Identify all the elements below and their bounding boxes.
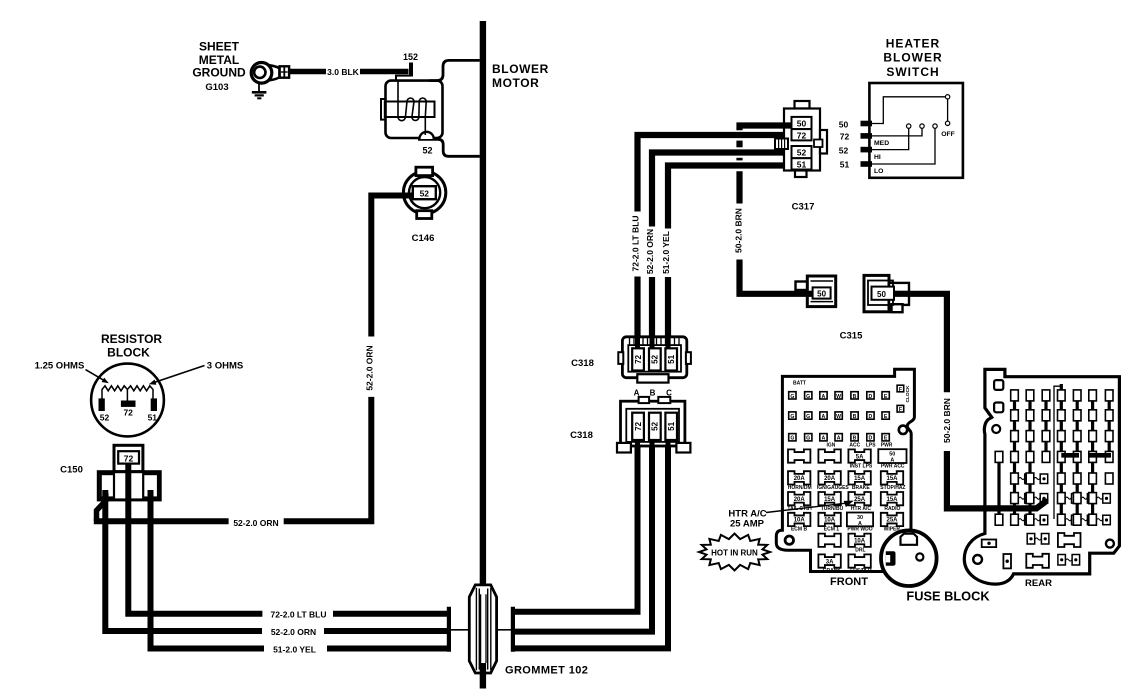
svg-text:15A: 15A: [886, 497, 898, 503]
wire 72-2.0 LT BLU (C317 to C318, upper segment): [638, 135, 792, 212]
fuse cavity E row3 col7: [882, 434, 889, 441]
fuse cavity D row1 col6: [867, 392, 874, 399]
rear fuse terminal row4 col1: [1011, 451, 1019, 462]
rear fuse terminal row3 col1: [1011, 431, 1019, 442]
svg-text:W: W: [836, 414, 841, 420]
fuse 15A TURN/BU: [818, 492, 840, 505]
svg-text:LO: LO: [874, 168, 883, 175]
connector C318 (upper) rib lines: [630, 338, 680, 346]
svg-text:STOP/HAZ: STOP/HAZ: [880, 485, 905, 491]
svg-text:51-2.0 YEL: 51-2.0 YEL: [661, 231, 671, 274]
svg-text:DRL: DRL: [855, 547, 865, 553]
svg-text:51: 51: [148, 412, 158, 422]
harness bundle bar (left of grommet): [447, 607, 451, 652]
rear fuse terminal row2 col3: [1042, 410, 1050, 421]
connector C318 (upper) housing: [622, 337, 686, 378]
label BLOWER MOTOR: [492, 62, 549, 90]
svg-text:BATT: BATT: [793, 380, 806, 386]
rear terminal with dot (vertical): [1003, 554, 1011, 568]
fuse cavity W row2 col4: [835, 412, 842, 419]
rear fuse column 6 bus line: [1091, 392, 1094, 524]
connector C318 (lower) left foot: [617, 443, 631, 453]
rear fuse column 4 bus line: [1060, 384, 1063, 524]
resistor block housing circle: [91, 364, 164, 437]
rear relay contacts pair (bottom row upper): [1027, 534, 1035, 545]
arrow from 1.25 OHMS to resistor: [86, 370, 106, 382]
svg-text:B: B: [853, 394, 857, 400]
label SHEET METAL GROUND: [192, 40, 246, 80]
connector C318 (upper) inner shell: [628, 345, 681, 372]
svg-text:51: 51: [667, 421, 676, 430]
rear fuse terminal row7 col5: [1073, 514, 1081, 525]
svg-text:10A: 10A: [794, 518, 806, 524]
connector C317 pin box 51: [792, 158, 812, 169]
connector C317 top bump: [795, 101, 810, 109]
rear fuse terminal row4 col3: [1042, 451, 1050, 462]
svg-text:25 AMP: 25 AMP: [730, 518, 765, 529]
fuse cavity B row3 col5: [851, 434, 858, 441]
rear fuse column 5 bus line: [1076, 392, 1079, 524]
svg-text:G: G: [790, 394, 794, 400]
switch line pin 51 to LO contact: [872, 129, 935, 165]
svg-text:ECM B: ECM B: [791, 527, 808, 533]
svg-text:50: 50: [797, 119, 807, 129]
svg-text:3A: 3A: [826, 559, 834, 565]
svg-text:B: B: [650, 388, 656, 397]
connector C318 (lower) pin box 51: [665, 413, 677, 440]
connector C318 (lower) housing: [621, 401, 685, 446]
svg-text:72: 72: [797, 130, 807, 140]
svg-text:GROUND: GROUND: [192, 66, 246, 80]
rear fuse terminal row1 col6: [1089, 390, 1097, 401]
rear fuse terminal row1 col3: [1042, 390, 1050, 401]
svg-text:ACC: ACC: [849, 442, 860, 448]
svg-text:52: 52: [420, 189, 430, 199]
blower motor brush dome (pin 52): [419, 132, 433, 139]
wire 72-2.0 LT BLU from C150 centre pin (left segment of run): [128, 463, 262, 614]
connector C318 (upper) pin box 72: [632, 348, 644, 370]
fuse 50A PWR ACC: [878, 449, 906, 463]
arrow from HTR A/C label to 25A fuse: [766, 503, 846, 512]
fuse cavity G row3 col1: [789, 434, 796, 441]
fuse 10A DRL: [848, 534, 870, 547]
svg-text:G: G: [806, 394, 810, 400]
bulkhead line edge marks inside grommet: [480, 594, 482, 663]
switch wiper line from pin 50: [872, 97, 945, 124]
wire 3.0 BLK (right segment): [360, 69, 409, 74]
rear fuse terminal row1 col7: [1105, 390, 1113, 401]
svg-text:20A: 20A: [824, 476, 836, 482]
svg-text:BLOWER: BLOWER: [883, 51, 942, 65]
svg-text:F: F: [899, 407, 902, 413]
svg-text:10A: 10A: [854, 539, 866, 545]
fuse 30A PWR WDO: [847, 513, 873, 527]
svg-text:25A: 25A: [886, 518, 898, 524]
rear block cavity square (lower): [994, 403, 1003, 413]
connector C318 (upper) pin box 51: [665, 348, 677, 370]
svg-text:HEATER: HEATER: [886, 37, 940, 51]
svg-text:E: E: [884, 394, 888, 400]
resistor pin 51: [151, 398, 157, 411]
connector C315 (right half) right tab lower: [889, 295, 909, 305]
rear relay contact row5 col2: [1034, 477, 1040, 479]
fuse 5A INST LPS: [848, 449, 870, 462]
wire link from pin 152 into motor: [396, 76, 411, 81]
svg-text:15A: 15A: [886, 476, 898, 482]
svg-text:SHEET: SHEET: [199, 40, 240, 54]
svg-text:15A: 15A: [824, 497, 836, 503]
svg-text:72: 72: [634, 354, 643, 363]
fuse cavity A row3 col4: [835, 434, 842, 441]
ground symbol G103: [258, 83, 260, 91]
svg-text:REAR: REAR: [1025, 578, 1052, 589]
wire 50-2.0 BRN crossing segment 1: [736, 141, 742, 148]
svg-text:G103: G103: [205, 82, 228, 93]
svg-text:PWR ACC: PWR ACC: [881, 463, 905, 469]
fuse cavity E row1 col7: [882, 392, 889, 399]
rear fuse column 2 bus line: [1028, 392, 1031, 524]
wire 52-2.0 ORN (lower segment joining horizontal run): [284, 397, 372, 521]
fuse block FRONT housing outline: [776, 369, 914, 571]
wire 50-2.0 BRN from C317 pin 50 (corner segment): [740, 126, 792, 131]
svg-text:HOT IN RUN: HOT IN RUN: [711, 548, 758, 557]
svg-text:D: D: [869, 394, 873, 400]
rear fuse terminal row6 col5: [1073, 493, 1081, 504]
rear relay contact row6 col5: [1081, 497, 1087, 499]
rear fuse column 3 bus line: [1044, 392, 1047, 463]
connector C150 left pin cavity: [101, 474, 114, 497]
switch pin stub 50: [861, 121, 873, 127]
svg-text:FUS/PLR: FUS/PLR: [850, 568, 872, 574]
rear fuse terminal row5 col4: [1058, 473, 1066, 484]
resistor pin 52: [99, 398, 105, 411]
rear fuse terminal row2 col4: [1058, 410, 1066, 421]
connector C315 (left half) housing: [807, 276, 835, 307]
wire 50-2.0 BRN out of C315 to fuse block: [892, 294, 947, 392]
rear extra column terminal (row7): [995, 514, 1003, 525]
rear fuse terminal row1 col5: [1073, 390, 1081, 401]
rear relay contact row7 col2: [1034, 519, 1040, 521]
fuse cavity B row2 col5: [851, 412, 858, 419]
svg-text:20A: 20A: [794, 497, 806, 503]
connector C315 (right half) foot: [892, 304, 903, 312]
rear fuse terminal row4 col5: [1073, 451, 1081, 462]
svg-text:3.0 BLK: 3.0 BLK: [327, 67, 360, 77]
svg-text:B: B: [853, 414, 857, 420]
svg-text:PWR WDO: PWR WDO: [847, 527, 872, 533]
connector C318 (upper) left bump: [618, 352, 623, 364]
rear terminal with dot (bottom left): [982, 540, 997, 548]
rear fuse (bottom centre-left): [1026, 554, 1049, 568]
rear fuse terminal row3 col4: [1058, 431, 1066, 442]
arrow from 3 OHMS to resistor: [152, 366, 205, 384]
svg-text:G: G: [790, 436, 794, 442]
rear fuse terminal row2 col2: [1026, 410, 1034, 421]
fuse 10A ECM 1: [818, 513, 840, 526]
wire 52-2.0 ORN elbow from C150 left pin to upper run: [97, 493, 106, 521]
rear fuse terminal row4 col4: [1058, 451, 1066, 462]
mounting hole (rear block bottom left): [973, 555, 982, 564]
svg-text:LPS: LPS: [866, 442, 876, 448]
wire stubs below C318 lower pins: [635, 440, 640, 448]
svg-text:D: D: [869, 414, 873, 420]
connector C150 top housing: [114, 445, 143, 471]
fuse cavity D row2 col6: [867, 412, 874, 419]
svg-text:IGN/GAUGES: IGN/GAUGES: [817, 485, 850, 491]
svg-text:INST LPS: INST LPS: [850, 463, 873, 469]
svg-text:72: 72: [123, 408, 133, 418]
fuse block REAR housing outline: [964, 369, 1119, 584]
svg-text:5A: 5A: [856, 454, 864, 460]
wire 50-2.0 BRN down to C315: [740, 260, 813, 294]
fuse 25A WIPER: [881, 513, 903, 526]
blower motor body: [386, 81, 443, 138]
svg-text:72-2.0 LT BLU: 72-2.0 LT BLU: [631, 215, 641, 271]
resistor element (zigzag): [102, 386, 153, 399]
rear fuse column 1 bus line: [1013, 392, 1016, 524]
rear fuse terminal row3 col3: [1042, 431, 1050, 442]
rear fuse terminal row2 col6: [1089, 410, 1097, 421]
screw hole (front block): [899, 426, 907, 434]
connector C317 pin box 72: [792, 129, 812, 140]
svg-text:51: 51: [667, 354, 676, 363]
rear fuse terminal row5 col2: [1026, 473, 1034, 484]
rear fuse terminal row3 col7: [1105, 431, 1113, 442]
switch contact (top right): [945, 95, 949, 99]
connector C317 right tab: [820, 130, 827, 154]
svg-text:C318: C318: [570, 430, 593, 441]
wire 52-2.0 ORN (lower segment into C318): [649, 277, 655, 350]
fuse cavity G row1 col1: [789, 392, 796, 399]
svg-text:1.25 OHMS: 1.25 OHMS: [35, 361, 85, 372]
svg-text:C317: C317: [792, 201, 815, 212]
svg-text:W: W: [836, 394, 841, 400]
svg-text:OFF: OFF: [941, 131, 955, 138]
mounting hole (rear block bottom right): [1106, 540, 1114, 548]
rear fuse terminal row6 col1: [1011, 493, 1019, 504]
svg-text:20A: 20A: [794, 476, 806, 482]
wire 50-2.0 BRN lower segment into rear fuse block: [947, 451, 1046, 508]
connector C150 right pin cavity: [143, 474, 158, 497]
fuse cavity A row2 col3: [820, 412, 827, 419]
connector C146 bottom tab: [417, 211, 432, 219]
rear extra column bus line: [997, 452, 1000, 523]
blower motor brush bar: [385, 102, 435, 118]
heater blower switch box: [869, 83, 963, 178]
fuse cavity F (lower): [897, 405, 904, 412]
svg-text:52: 52: [797, 148, 807, 158]
rear fuse terminal row1 col2: [1026, 390, 1034, 401]
connector C146 pin box 52: [413, 186, 436, 199]
fuse cavity G row1 col2: [805, 392, 812, 399]
fuse 15A STOP/HAZ: [881, 471, 903, 484]
svg-text:C150: C150: [60, 465, 83, 476]
switch contact MED: [920, 124, 924, 128]
rear block jumper bar (cols 4-5): [1061, 453, 1079, 458]
switch line pin 52 to HI contact: [872, 129, 909, 150]
mounting hole (front block left tab): [785, 536, 793, 544]
svg-text:A: A: [837, 436, 841, 442]
fuse 10A ECM B: [788, 513, 810, 526]
rear relay contact row5 col1: [1018, 477, 1024, 479]
wire 50-2.0 BRN upper vertical segment: [736, 171, 742, 203]
fuse 20A TAIL CTSY: [788, 492, 810, 505]
svg-text:152: 152: [403, 52, 418, 62]
svg-text:51: 51: [797, 159, 807, 169]
rear relay contact row7 col6: [1096, 519, 1102, 521]
svg-text:G: G: [806, 414, 810, 420]
wire 52-2.0 ORN upper run (left segment): [94, 518, 229, 524]
rear fuse terminal row7 col2: [1026, 514, 1034, 525]
svg-text:A: A: [822, 436, 826, 442]
fuse (row E col 2): [818, 534, 840, 547]
switch wiper drop to OFF contact: [947, 99, 949, 121]
label RESISTOR BLOCK: [101, 332, 162, 360]
svg-text:G: G: [806, 436, 810, 442]
wire 72-2.0 LT BLU right of grommet up to C318: [513, 438, 638, 612]
svg-text:G: G: [790, 414, 794, 420]
fuse cavity G row2 col2: [805, 412, 812, 419]
svg-text:50: 50: [817, 289, 826, 298]
switch pin stub 72: [861, 133, 873, 139]
connector C315 (left half) inner lines: [811, 280, 834, 282]
wire 52-2.0 ORN lower run (right segment): [324, 628, 448, 634]
wire 72-2.0 LT BLU run (right segment): [333, 611, 448, 617]
svg-text:GROMMET 102: GROMMET 102: [505, 665, 588, 677]
rear fuse column 7 bus line: [1108, 392, 1111, 463]
fuse (row A col 2): [818, 449, 840, 462]
harness lead into grommet (left): [450, 629, 470, 631]
rear fuse (bottom centre-right): [1058, 533, 1081, 547]
svg-text:D: D: [869, 436, 873, 442]
harness bundle bar (right of grommet): [511, 607, 515, 652]
rear relay contact row6 col4: [1065, 497, 1071, 499]
grommet hatch lines: [475, 588, 477, 670]
wire 51-2.0 YEL right of grommet up to C318: [513, 438, 668, 648]
rear relay contact row6 col1: [1018, 497, 1024, 499]
fuse 15A RADIO: [881, 492, 903, 505]
fuse 3A CRANK: [818, 554, 840, 567]
HOT IN RUN starburst: [699, 534, 770, 571]
ignition connector key tab: [901, 534, 918, 545]
rear block cavity square (upper): [994, 380, 1003, 390]
blower motor wire to bulkhead (top): [429, 60, 480, 80]
switch contact LO: [933, 124, 937, 128]
connector C150 main housing: [98, 472, 160, 500]
resistor pin 72: [121, 401, 136, 407]
pin 152 stub: [409, 63, 413, 77]
rear fuse terminal row3 col5: [1073, 431, 1081, 442]
rear fuse terminal row2 col5: [1073, 410, 1081, 421]
connector C318 (upper) bottom tab: [637, 374, 668, 382]
rear fuse terminal row5 col6: [1089, 473, 1097, 484]
fuse cavity A row1 col3: [820, 392, 827, 399]
rear fuse terminal row6 col6: [1089, 493, 1097, 504]
svg-text:E: E: [884, 436, 888, 442]
connector C146 inner ring: [409, 177, 440, 208]
svg-text:15A: 15A: [854, 476, 866, 482]
rear fuse terminal row6 col2: [1026, 493, 1034, 504]
fuse 20A IGN/GAUGES: [818, 471, 840, 484]
svg-text:52-2.0 ORN: 52-2.0 ORN: [645, 229, 655, 274]
svg-text:A: A: [634, 388, 640, 397]
wire 52-2.0 ORN right of grommet up to C318: [513, 438, 652, 632]
svg-text:51: 51: [840, 160, 850, 170]
bulkhead line (lower segment): [480, 663, 486, 689]
svg-text:PWR: PWR: [881, 442, 893, 448]
rear fuse terminal row3 col2: [1026, 431, 1034, 442]
wire stubs into C318 upper pins: [635, 338, 640, 350]
wire 52-2.0 ORN (C317 to C318, upper segment): [652, 153, 792, 227]
svg-text:BLOWER: BLOWER: [492, 62, 549, 76]
fuse cavity B row1 col5: [851, 392, 858, 399]
svg-text:RESISTOR: RESISTOR: [101, 332, 162, 346]
svg-text:SWITCH: SWITCH: [886, 65, 939, 79]
svg-text:51-2.0 YEL: 51-2.0 YEL: [273, 645, 316, 655]
blower motor shaft cap: [381, 99, 386, 120]
svg-text:C315: C315: [840, 331, 863, 342]
fuse (row A col 1): [788, 449, 810, 462]
svg-text:CRANK: CRANK: [823, 568, 841, 574]
rear fuse terminal row7 col4: [1058, 514, 1066, 525]
connector C315 (right half) pin box 50: [872, 287, 895, 300]
fuse cavity G row3 col2: [805, 434, 812, 441]
fuse FUS/PLR: [848, 554, 870, 567]
ignition connector small hole: [916, 553, 923, 560]
bulkhead line (upper segment): [480, 21, 486, 594]
blower motor coil winding: [398, 81, 426, 121]
connector C317 pin box 50: [792, 117, 812, 129]
rear fuse terminal row3 col6: [1089, 431, 1097, 442]
connector C318 (lower) pin box 72: [632, 413, 644, 440]
svg-text:25A: 25A: [854, 497, 866, 503]
rear fuse terminal row1 col4: [1058, 390, 1066, 401]
svg-text:HORN/DM: HORN/DM: [788, 485, 812, 491]
rear relay contact row7 col1: [1018, 519, 1024, 521]
resistor center tap: [126, 390, 128, 401]
connector C318 (lower) inner shell: [626, 409, 679, 442]
fuse cavity E row2 col7: [882, 412, 889, 419]
label HEATER BLOWER SWITCH: [883, 37, 942, 80]
connector C315 (right half) housing: [864, 275, 889, 311]
rear fuse terminal row5 col5: [1073, 473, 1081, 484]
svg-text:3 OHMS: 3 OHMS: [207, 361, 243, 372]
grommet 102 body: [469, 585, 496, 673]
svg-text:50: 50: [877, 290, 886, 299]
wire 72-2.0 LT BLU (lower segment into C318): [634, 277, 640, 351]
blower motor wire to bulkhead (bottom) with brush dome base: [418, 139, 480, 156]
fuse 20A HORN/DM: [788, 471, 810, 484]
switch pin stub 51: [861, 161, 873, 167]
connector C315 (left half) left tab: [796, 282, 809, 291]
svg-text:52: 52: [100, 412, 110, 422]
screw hole (rear block): [992, 425, 1000, 433]
rear relay contact row7 col4: [1065, 519, 1071, 521]
rear extra column terminal (row4): [995, 451, 1003, 462]
svg-text:BLOCK: BLOCK: [107, 346, 150, 360]
rear fuse terminal row4 col2: [1026, 451, 1034, 462]
svg-text:C: C: [666, 388, 672, 397]
wire 51-2.0 YEL (lower segment into C318): [665, 277, 671, 350]
svg-text:10A: 10A: [824, 518, 836, 524]
switch contact HI: [907, 124, 911, 128]
fuse cavity G row2 col1: [789, 412, 796, 419]
connector C318 (lower) right foot: [676, 443, 690, 453]
rear fuse terminal row5 col1: [1011, 473, 1019, 484]
connector C317 bottom tab: [795, 171, 807, 178]
svg-text:52-2.0 ORN: 52-2.0 ORN: [364, 345, 374, 390]
svg-text:ECM 1: ECM 1: [824, 527, 840, 533]
